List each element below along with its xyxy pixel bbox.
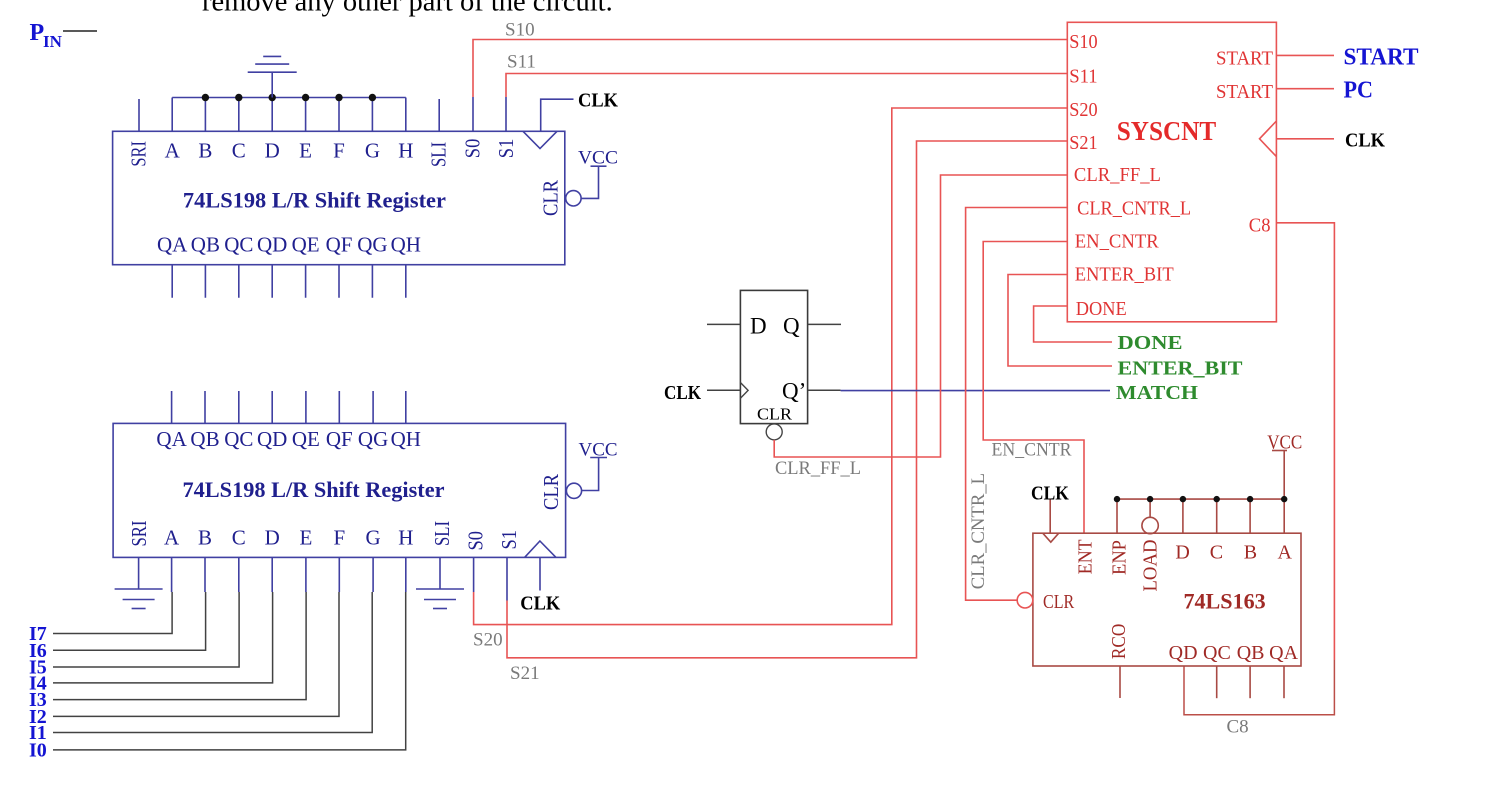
svg-text:C: C — [1210, 542, 1223, 564]
svg-text:S21: S21 — [510, 663, 540, 684]
U5 QA stub wire — [1283, 667, 1285, 699]
svg-text:F: F — [333, 139, 345, 163]
U2 CLR to VCC wire — [582, 458, 599, 491]
wire I7 to U2 pin A — [53, 592, 172, 634]
svg-text:QE: QE — [292, 233, 320, 257]
svg-text:D: D — [265, 139, 280, 163]
wire C8 lower run to U5 QD — [1184, 660, 1334, 715]
svg-text:SLI: SLI — [430, 521, 454, 546]
svg-text:QD: QD — [1169, 642, 1198, 664]
svg-text:A: A — [164, 526, 180, 550]
wire START output — [1276, 54, 1334, 56]
svg-text:S1: S1 — [494, 139, 518, 159]
svg-text:S0: S0 — [460, 139, 484, 159]
wire CLK input (U4) — [1276, 138, 1334, 140]
U5 A pull-up wire — [1283, 499, 1285, 533]
svg-text:QC: QC — [1203, 642, 1231, 664]
U2 Q output labels QA-QH — [156, 427, 421, 451]
svg-text:C: C — [232, 139, 246, 163]
svg-text:CLK: CLK — [664, 382, 701, 404]
D flip-flop U3 body — [740, 290, 807, 423]
svg-text:H: H — [398, 526, 413, 550]
wire PC output — [1276, 88, 1334, 90]
U2 bottom pin labels SRI A-H SLI S0 S1 — [127, 521, 521, 551]
U1 output pin labels QA-QH — [157, 233, 421, 257]
wire I5 to U2 pin C — [53, 592, 239, 667]
svg-text:QA: QA — [1269, 642, 1298, 664]
U2 CLR bubble — [566, 483, 581, 498]
svg-text:F: F — [333, 526, 345, 550]
wire I3 to U2 pin E — [53, 592, 306, 700]
U1 CLK wire — [541, 99, 574, 131]
shift register U2 74LS198 (bottom) body — [113, 423, 565, 557]
shift register U1 74LS198 (top) body — [113, 131, 565, 264]
svg-text:CLR: CLR — [539, 474, 563, 510]
svg-text:SRI: SRI — [126, 141, 150, 167]
svg-text:VCC: VCC — [578, 148, 618, 169]
svg-text:CLR: CLR — [757, 404, 793, 423]
svg-text:QC: QC — [224, 233, 253, 257]
svg-text:QA: QA — [157, 233, 188, 257]
wire CLR_CNTR_L (U4 to U5 CLR bubble) — [966, 208, 1068, 601]
U5 CLK wire — [1049, 500, 1051, 534]
wire I0 to U2 pin H — [53, 592, 406, 750]
svg-text:CLR: CLR — [538, 180, 562, 216]
U5 clock arrow — [1043, 533, 1059, 542]
U5 CLR bubble — [1017, 592, 1033, 608]
U2 SLI stub wire — [439, 557, 441, 588]
U5 QB stub wire — [1249, 667, 1251, 699]
svg-text:I0: I0 — [29, 740, 47, 762]
svg-text:DONE: DONE — [1076, 298, 1127, 320]
svg-text:C: C — [232, 526, 246, 550]
svg-text:D: D — [750, 314, 767, 339]
U5 C pull-up wire — [1216, 499, 1218, 533]
svg-text:ENP: ENP — [1109, 540, 1131, 575]
U2 SRI stub wire — [138, 557, 140, 588]
U1 S1 stub wire — [505, 97, 507, 131]
U5 LOAD bubble — [1142, 517, 1158, 533]
U5 VCC bus wire — [1117, 498, 1284, 500]
svg-text:B: B — [198, 139, 212, 163]
U2 Q output stub wires (top) — [172, 391, 406, 423]
svg-text:IN: IN — [43, 32, 63, 51]
node P_IN — [30, 20, 98, 51]
svg-text:EN_CNTR: EN_CNTR — [1075, 231, 1160, 253]
junction dots on U1 input bus — [202, 94, 376, 101]
svg-text:DONE: DONE — [1118, 332, 1183, 354]
U3 Q output wire — [808, 323, 841, 325]
wire I2 to U2 pin F — [53, 592, 339, 716]
U1 parallel input bus wire — [172, 97, 406, 99]
wire MATCH (blue) — [841, 390, 1110, 392]
svg-text:EN_CNTR: EN_CNTR — [992, 440, 1072, 461]
wire S11 (U1 S1 to SYSCNT) — [506, 74, 1067, 98]
U3 D input wire — [707, 323, 740, 325]
svg-text:CLR_FF_L: CLR_FF_L — [775, 458, 861, 479]
wire DONE (U4 to node) — [1034, 306, 1112, 342]
svg-text:QB: QB — [190, 427, 219, 451]
svg-text:QE: QE — [292, 427, 320, 451]
svg-text:Q’: Q’ — [782, 379, 806, 404]
junction dots on U5 VCC bus — [1114, 496, 1288, 502]
svg-text:CLR_CNTR_L: CLR_CNTR_L — [1077, 198, 1191, 220]
svg-text:CLR_CNTR_L: CLR_CNTR_L — [968, 473, 989, 589]
svg-text:ENTER_BIT: ENTER_BIT — [1075, 264, 1174, 286]
svg-text:QF: QF — [326, 233, 353, 257]
svg-text:SYSCNT: SYSCNT — [1117, 116, 1216, 146]
svg-text:E: E — [299, 526, 312, 550]
U1 A-H input stub wires — [172, 98, 406, 132]
svg-text:B: B — [1244, 542, 1257, 564]
svg-text:CLR: CLR — [1043, 591, 1075, 613]
U2 S0 stub wire — [473, 557, 475, 592]
U5 VCC drop wire — [1283, 451, 1285, 500]
wire S21 (U2 S1 to SYSCNT) — [507, 141, 1067, 658]
svg-text:START: START — [1216, 47, 1273, 69]
U3 Q' output wire (black) — [808, 389, 841, 391]
wire EN_CNTR (U4 to U5 ENT) — [983, 242, 1084, 534]
U2 S1 stub wire — [506, 557, 508, 600]
U1 SRI input stub wire — [138, 99, 140, 131]
ground GND1 (inverted, above U1 bus) — [248, 56, 297, 97]
svg-text:74LS198 L/R Shift Register: 74LS198 L/R Shift Register — [183, 187, 446, 212]
svg-text:START: START — [1344, 44, 1419, 70]
svg-text:Q: Q — [783, 314, 800, 339]
svg-text:C8: C8 — [1227, 716, 1249, 737]
ground GND3 (below U2 SLI) — [416, 589, 464, 609]
svg-text:CLK: CLK — [520, 592, 560, 614]
counter U5 74LS163 body — [1033, 533, 1301, 666]
svg-text:D: D — [265, 526, 280, 550]
svg-text:SRI: SRI — [127, 521, 151, 547]
U1 VCC bar — [591, 165, 607, 167]
svg-text:QA: QA — [156, 427, 187, 451]
wire CLR_FF_L (U3 to SYSCNT) — [774, 175, 1067, 457]
svg-text:START: START — [1216, 81, 1273, 103]
U2 A-H input stub wires (bottom, blue) — [172, 557, 406, 592]
svg-text:S10: S10 — [1069, 31, 1097, 53]
svg-text:QH: QH — [391, 427, 421, 451]
wire S10 (U1 S0 to SYSCNT) — [473, 40, 1067, 98]
svg-text:H: H — [398, 139, 413, 163]
controller U4 SYSCNT body — [1067, 22, 1276, 322]
wire C8 (U4 to U5 QD) — [1276, 223, 1334, 660]
U3 CLR bubble — [766, 424, 782, 440]
svg-text:A: A — [1277, 542, 1292, 564]
wire I4 to U2 pin D — [53, 592, 273, 683]
svg-text:QG: QG — [357, 233, 387, 257]
U5 QC stub wire — [1216, 667, 1218, 699]
svg-text:P: P — [30, 20, 45, 46]
svg-text:QD: QD — [257, 427, 287, 451]
U5 ENP pull-up wire — [1116, 499, 1118, 533]
svg-text:QF: QF — [326, 427, 353, 451]
svg-text:QB: QB — [191, 233, 220, 257]
svg-text:B: B — [198, 526, 212, 550]
svg-text:S10: S10 — [505, 19, 535, 40]
U1 SLI input stub wire — [438, 99, 440, 131]
svg-text:QG: QG — [358, 427, 388, 451]
svg-text:CLK: CLK — [578, 89, 618, 111]
U1 clock triangle — [523, 131, 557, 148]
svg-text:S0: S0 — [464, 531, 488, 551]
svg-text:S21: S21 — [1069, 132, 1097, 154]
wire S20 (U2 S0 to SYSCNT) — [474, 108, 1068, 625]
wire I6 to U2 pin B — [53, 592, 206, 650]
svg-text:SLI: SLI — [427, 142, 451, 167]
svg-text:RCO: RCO — [1108, 624, 1130, 660]
svg-text:QC: QC — [224, 427, 253, 451]
svg-text:S20: S20 — [1069, 99, 1097, 121]
svg-text:ENT: ENT — [1074, 540, 1096, 575]
U1 CLR to VCC wire — [581, 166, 598, 198]
U2 CLK stub wire — [539, 557, 541, 590]
U1 CLR bubble — [566, 191, 581, 206]
U3 CLK input wire — [707, 389, 740, 391]
U2 clock triangle — [525, 541, 556, 557]
svg-text:G: G — [366, 526, 381, 550]
U2 VCC bar — [590, 457, 607, 459]
svg-text:LOAD: LOAD — [1140, 540, 1162, 592]
svg-text:C8: C8 — [1249, 214, 1271, 236]
U5 RCO stub wire — [1119, 667, 1121, 699]
U3 clock triangle — [740, 383, 748, 399]
svg-text:S20: S20 — [473, 629, 503, 650]
wire I1 to U2 pin G — [53, 592, 372, 733]
svg-text:E: E — [299, 139, 312, 163]
U5 VCC bar — [1272, 450, 1287, 452]
U5 D pull-up wire — [1182, 499, 1184, 533]
U5 B pull-up wire — [1249, 499, 1251, 533]
ground GND2 (below U2 SRI) — [115, 589, 163, 609]
svg-text:S11: S11 — [507, 52, 536, 73]
svg-text:PC: PC — [1344, 78, 1374, 104]
svg-text:CLK: CLK — [1345, 130, 1385, 152]
U1 top pin labels SRI A-H SLI S0 S1 — [126, 139, 518, 168]
svg-text:74LS198 L/R Shift Register: 74LS198 L/R Shift Register — [183, 477, 445, 502]
svg-text:A: A — [165, 139, 181, 163]
svg-text:MATCH: MATCH — [1116, 382, 1198, 404]
svg-text:remove any other part of the c: remove any other part of the circuit. — [202, 0, 613, 18]
svg-text:S1: S1 — [497, 530, 521, 550]
svg-text:QH: QH — [391, 233, 421, 257]
wire ENTER_BIT (U4 to node) — [1008, 275, 1112, 367]
U1 S0 stub wire — [472, 97, 474, 131]
svg-text:74LS163: 74LS163 — [1183, 589, 1265, 614]
svg-text:ENTER_BIT: ENTER_BIT — [1118, 357, 1244, 379]
U1 Q output stub wires — [172, 265, 406, 298]
svg-text:G: G — [365, 139, 380, 163]
U5 LOAD pull-up wire — [1149, 499, 1151, 517]
svg-text:D: D — [1175, 542, 1189, 564]
svg-text:S11: S11 — [1069, 65, 1097, 87]
svg-text:QD: QD — [257, 233, 287, 257]
svg-text:QB: QB — [1237, 642, 1265, 664]
svg-text:CLR_FF_L: CLR_FF_L — [1074, 164, 1161, 186]
U4 clock triangle — [1260, 121, 1277, 157]
